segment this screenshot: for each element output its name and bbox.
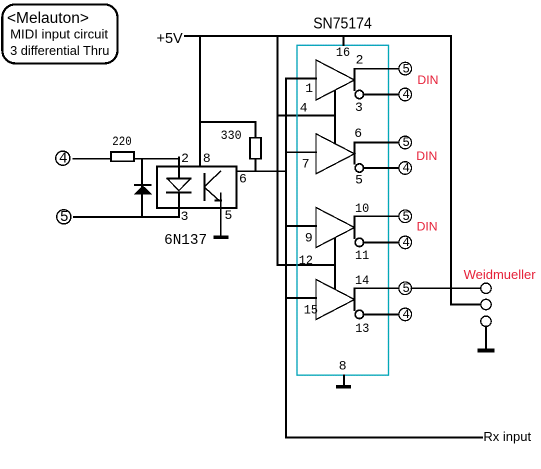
pin 16 stub VCC (342, 36, 344, 45)
svg-text:SN75174: SN75174 (313, 16, 372, 33)
Weidmueller terminal 2 (481, 299, 491, 309)
Weidmueller terminal 1 (481, 283, 491, 293)
Weidmueller terminal 3 (481, 316, 491, 326)
buffer 4 (286, 280, 399, 320)
svg-text:4: 4 (59, 151, 68, 167)
svg-text:2: 2 (181, 151, 189, 166)
pin 3 stub from cathode (178, 192, 180, 217)
svg-text:10: 10 (355, 201, 369, 216)
buffer 2 (286, 134, 399, 174)
pin 5 stub to ground (220, 193, 222, 235)
wire Rx input line (286, 436, 482, 438)
svg-text:4: 4 (402, 162, 410, 176)
svg-text:DIN: DIN (417, 73, 438, 87)
svg-text:3 differential Thru: 3 differential Thru (10, 43, 109, 58)
svg-text:3: 3 (181, 209, 189, 224)
svg-text:6N137: 6N137 (164, 232, 207, 249)
circled 5 output b1 (399, 62, 412, 76)
svg-text:5: 5 (355, 172, 363, 187)
wire enable link buffers 1-2 (334, 90, 336, 143)
svg-text:4: 4 (402, 236, 410, 250)
svg-text:14: 14 (355, 273, 369, 288)
svg-text:5: 5 (402, 210, 410, 224)
pin 2 stub into LED anode (178, 157, 180, 179)
opto LED cathode bar (167, 191, 190, 193)
wire enable pin4 line (277, 115, 335, 117)
svg-text:8: 8 (203, 151, 211, 166)
IC U2 SN75174 dashed box (297, 45, 389, 375)
diode D1 protection (135, 185, 151, 194)
circled 5 output b4 (399, 282, 412, 296)
svg-text:3: 3 (355, 100, 363, 115)
circled 4 output b1 (399, 88, 412, 102)
wire resistor to opto pin2 (134, 158, 179, 160)
opto phototransistor base bar (204, 174, 206, 200)
opto emitter arrowhead (215, 199, 221, 201)
svg-text:11: 11 (355, 248, 369, 263)
opto emitter diagonal (205, 188, 219, 201)
wire branch to 330 resistor (200, 122, 256, 138)
svg-text:220: 220 (112, 134, 131, 149)
svg-text:330: 330 (221, 128, 242, 143)
buffer 1 (286, 60, 399, 100)
wire enable pin12 line (277, 264, 335, 266)
opto collector diagonal (205, 171, 221, 186)
optocoupler U1 6N137 body (157, 166, 237, 208)
opto LED triangle (167, 179, 190, 191)
svg-text:8: 8 (339, 359, 347, 374)
wire +5V drop to opto pin8 (199, 36, 201, 166)
svg-text:5: 5 (402, 136, 410, 150)
svg-text:DIN: DIN (416, 149, 437, 163)
pin 8 stub GND (343, 375, 345, 386)
svg-text:7: 7 (302, 157, 310, 172)
wire from circled5 to opto pin3 (74, 216, 179, 218)
svg-text:4: 4 (402, 88, 410, 102)
circled 4 output b2 (399, 162, 412, 176)
svg-text:2: 2 (356, 53, 364, 68)
wire 330 bottom to pin6 net (255, 159, 257, 172)
buffer 3 (286, 208, 399, 248)
ground bar 6N137 pin5 (213, 236, 228, 239)
svg-text:16: 16 (336, 45, 350, 60)
ground bar SN75174 pin8 (336, 385, 351, 388)
svg-text:5: 5 (402, 282, 410, 296)
svg-text:9: 9 (305, 230, 313, 245)
svg-text:6: 6 (239, 172, 247, 187)
svg-text:4: 4 (300, 101, 308, 116)
wire right rail down to Weidmueller middle (451, 36, 481, 305)
wire b4 out5 to Weidmueller (411, 287, 481, 289)
svg-text:+5V: +5V (157, 31, 184, 47)
circled 4 output b3 (399, 236, 412, 250)
DIN connector circled 4 (left input) (56, 151, 70, 167)
wire input bus vertical (285, 79, 287, 438)
wire from circled4 to resistor (73, 158, 111, 160)
resistor R1 220 (111, 152, 134, 161)
resistor R2 330 (250, 138, 261, 159)
circled 5 output b3 (399, 210, 412, 224)
circled 5 output b2 (399, 136, 412, 150)
svg-text:15: 15 (304, 302, 318, 317)
wire pin6 net opto collector to input bus (221, 170, 286, 172)
wire diode branch vertical (141, 159, 143, 217)
svg-text:1: 1 (305, 81, 313, 96)
svg-text:6: 6 (354, 126, 362, 141)
svg-text:5: 5 (60, 210, 69, 226)
wire enable link buffers 3-4 (334, 238, 336, 290)
title note box (2, 4, 117, 63)
svg-text:12: 12 (299, 253, 313, 268)
svg-text:5: 5 (402, 62, 410, 76)
svg-text:Weidmueller: Weidmueller (464, 267, 537, 282)
svg-text:MIDI input circuit: MIDI input circuit (10, 26, 108, 41)
svg-text:4: 4 (402, 308, 410, 322)
wire terminal 3 to ground (485, 327, 487, 349)
ground bar Weidmueller (477, 349, 494, 353)
svg-text:13: 13 (355, 321, 369, 336)
circled 4 output b4 (399, 308, 412, 322)
svg-text:<Melauton>: <Melauton> (7, 10, 89, 27)
DIN connector circled 5 (left input) (57, 210, 71, 226)
svg-text:Rx input: Rx input (483, 429, 531, 444)
svg-text:DIN: DIN (417, 220, 438, 234)
wire +5V rail (185, 35, 451, 37)
svg-text:5: 5 (225, 208, 233, 223)
wire enable drop from +5V (276, 36, 278, 265)
